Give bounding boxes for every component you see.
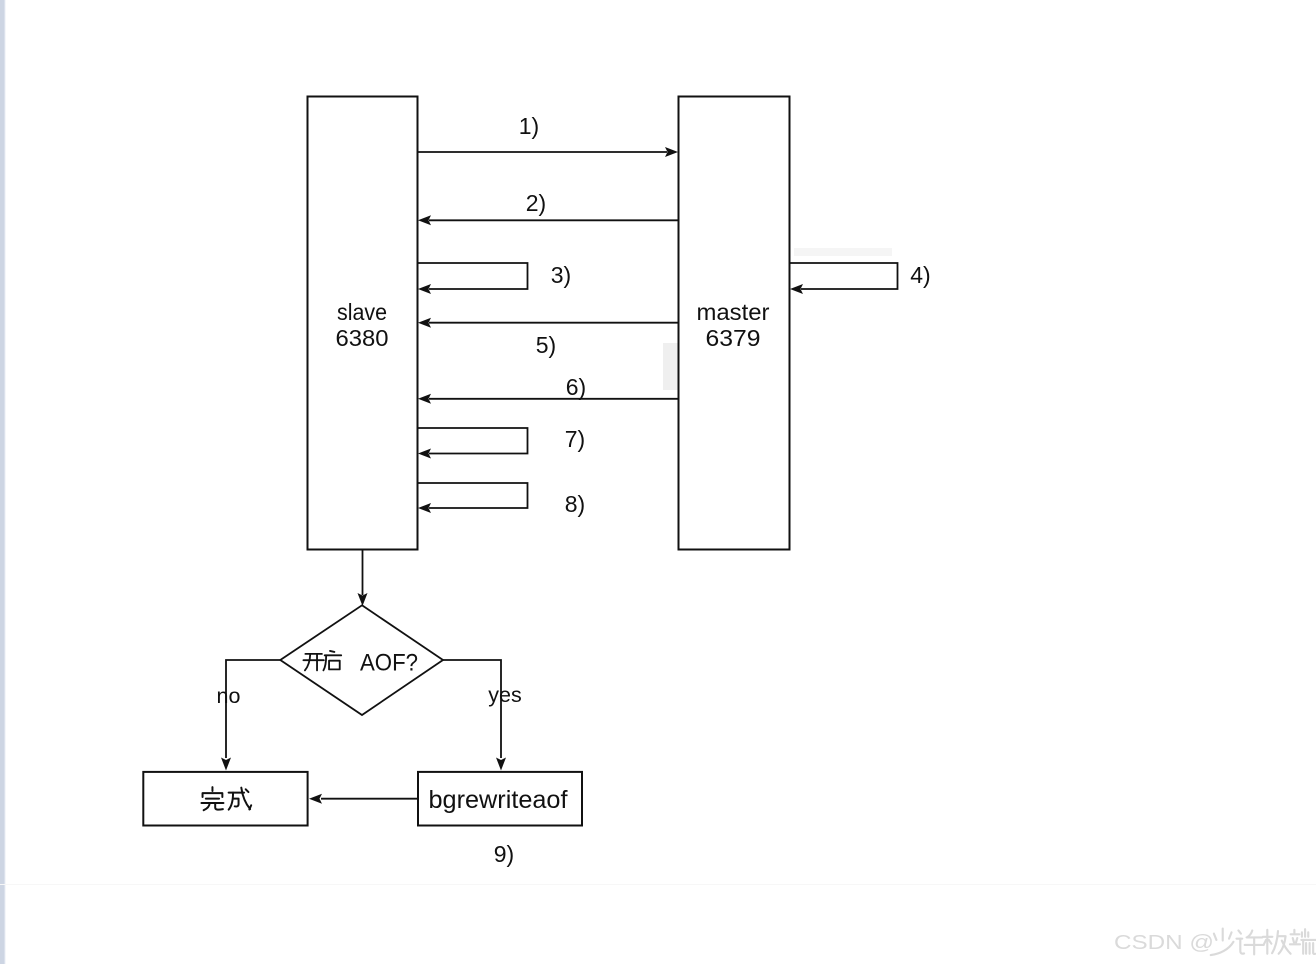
svg-text:bgrewriteaof: bgrewriteaof: [429, 786, 568, 814]
svg-text:2): 2): [526, 190, 546, 216]
svg-text:1): 1): [519, 113, 539, 139]
svg-text:6379: 6379: [706, 325, 761, 351]
svg-text:CSDN @: CSDN @: [1114, 932, 1214, 954]
svg-text:master: master: [697, 299, 770, 325]
svg-text:4): 4): [910, 262, 930, 288]
svg-text:yes: yes: [488, 683, 521, 707]
svg-text:8): 8): [565, 491, 585, 517]
svg-text:7): 7): [565, 426, 585, 452]
svg-text:no: no: [217, 684, 241, 708]
svg-text:6380: 6380: [336, 325, 389, 351]
svg-text:6): 6): [566, 374, 586, 400]
svg-text:3): 3): [551, 262, 571, 288]
svg-text:AOF?: AOF?: [360, 650, 418, 677]
svg-text:9): 9): [494, 841, 514, 867]
svg-text:slave: slave: [337, 299, 387, 325]
svg-text:5): 5): [536, 332, 556, 358]
